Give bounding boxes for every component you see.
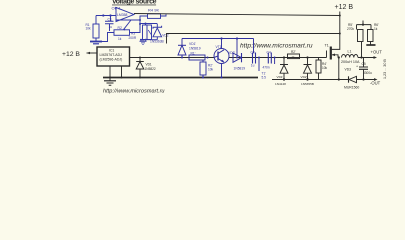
- svg-text:R1': R1': [191, 52, 196, 56]
- svg-text:VD3: VD3: [345, 68, 352, 72]
- capacitor C4: [268, 53, 271, 64]
- svg-text:1,23 ... 30 В: 1,23 ... 30 В: [383, 59, 387, 79]
- resistor R2' series: [288, 54, 300, 59]
- node dot: [109, 14, 111, 16]
- title Voltage source: [112, 0, 157, 6]
- svg-text:1k: 1k: [118, 37, 122, 41]
- node rail junction pin5: [121, 77, 123, 79]
- svg-text:MUR1560: MUR1560: [344, 85, 359, 89]
- node R3 top junction: [139, 23, 141, 25]
- svg-text:L1: L1: [348, 50, 352, 54]
- main wire IC to T1: [130, 57, 327, 59]
- resistor R6': [368, 30, 374, 42]
- svg-text:1k: 1k: [374, 27, 378, 31]
- IC pins down: [110, 66, 122, 78]
- svg-text:200R: 200R: [129, 36, 137, 40]
- svg-text:-OUT: -OUT: [370, 81, 381, 86]
- zener diode VD2 1N5363B: [156, 24, 158, 40]
- svg-text:1N5355B: 1N5355B: [301, 82, 314, 86]
- blue resistor R1': [189, 55, 205, 60]
- svg-text:C1: C1: [108, 18, 112, 22]
- blue resistor R2' 10k vertical: [202, 60, 204, 78]
- wire op-amp -input: [116, 19, 140, 21]
- node rail junction VD2': [306, 78, 308, 80]
- svg-text:+12 В: +12 В: [62, 51, 80, 58]
- svg-text:VD2: VD2: [162, 34, 168, 38]
- svg-text:http://www.microsmart.ru: http://www.microsmart.ru: [240, 43, 313, 50]
- T1 source arrow: [332, 55, 338, 58]
- svg-text:+: +: [356, 65, 358, 69]
- node rail junction pin3: [109, 77, 111, 79]
- resistor R3 trimmer: [140, 24, 157, 40]
- svg-text:1u: 1u: [251, 64, 255, 68]
- svg-text:R2: R2: [118, 26, 122, 30]
- resistor R4': [318, 58, 320, 80]
- svg-text:OP 1: OP 1: [112, 6, 122, 11]
- svg-text:200uH 10A: 200uH 10A: [341, 60, 360, 64]
- svg-text:1u: 1u: [109, 25, 113, 29]
- wire R4 leads: [140, 14, 166, 31]
- ground at zener: [140, 40, 147, 42]
- svg-text:VD2': VD2': [228, 51, 235, 55]
- node wire33 junction: [339, 33, 341, 35]
- node rail junction VD1: [139, 77, 141, 79]
- IC1 LM2576T-ADJ: [97, 47, 130, 66]
- svg-text:R4 9K: R4 9K: [148, 8, 159, 13]
- svg-text:470n: 470n: [263, 65, 270, 69]
- wire +12V down to T1: [331, 12, 340, 50]
- svg-text:10k: 10k: [322, 66, 328, 70]
- node T1': [258, 57, 260, 59]
- svg-text:R2': R2': [291, 50, 296, 54]
- top section: voltage reference (navy): [86, 6, 169, 45]
- diode VD1 1N5822: [139, 58, 141, 78]
- wire main to gate: [326, 51, 328, 58]
- R6 ground: [370, 42, 372, 45]
- svg-text:10k: 10k: [208, 68, 214, 72]
- svg-text:1N5822: 1N5822: [145, 67, 156, 71]
- node +12V corner junction: [339, 15, 341, 17]
- resistor R1: [95, 16, 97, 42]
- blue diode VD1' 1N5819: [181, 39, 183, 58]
- svg-text:C5: C5: [362, 62, 366, 66]
- svg-text:+OUT: +OUT: [371, 50, 383, 55]
- svg-text:5.5: 5.5: [262, 75, 267, 79]
- svg-text:VD2': VD2': [301, 75, 308, 79]
- node blue junction C3 branch: [236, 37, 238, 39]
- svg-text:(LM2596-ADJ): (LM2596-ADJ): [100, 58, 123, 62]
- node R5-output junction: [360, 56, 362, 58]
- node wire bottom: [140, 39, 157, 41]
- node divider junction: [362, 24, 364, 26]
- svg-text:10k: 10k: [86, 27, 92, 31]
- node feedback junction: [139, 19, 141, 21]
- wire +12V rail to op-amp section: [167, 34, 340, 44]
- wire op-amp +input: [96, 15, 116, 17]
- potentiometer R2: [114, 30, 130, 36]
- transistor VT1: [214, 49, 229, 64]
- blue modification sub-circuit: [178, 37, 276, 79]
- svg-text:3300u: 3300u: [363, 71, 372, 75]
- output rail: [272, 79, 376, 81]
- capacitor C5: [363, 58, 365, 80]
- svg-text:270k: 270k: [347, 27, 354, 31]
- svg-text:IC1: IC1: [109, 49, 114, 53]
- node VD1 top junction: [139, 57, 141, 59]
- resistor R4: [148, 14, 161, 19]
- svg-text:LM2576T-ADJ: LM2576T-ADJ: [100, 53, 123, 57]
- op-amp OP1: [116, 8, 134, 22]
- svg-text:VT1: VT1: [216, 45, 222, 49]
- bottom rail: [103, 77, 258, 79]
- svg-text:C4: C4: [267, 51, 271, 55]
- wire R5 bottom lead to output node: [361, 42, 363, 58]
- zener VD1' 1N4148: [283, 58, 285, 80]
- ground symbol on rail: [109, 78, 111, 81]
- svg-text:T1: T1: [325, 43, 329, 47]
- wire drain vertical to rail: [338, 58, 340, 80]
- blue diode VD2' series: [233, 53, 242, 62]
- -OUT arrow: [374, 78, 378, 81]
- svg-text:LM358: LM358: [117, 13, 127, 17]
- svg-text:VD1': VD1': [277, 75, 284, 79]
- +OUT arrow: [374, 56, 378, 59]
- svg-text:C3: C3: [251, 51, 255, 55]
- svg-text:1N5819: 1N5819: [234, 67, 246, 71]
- svg-text:+12 В: +12 В: [335, 4, 354, 11]
- node dot: [102, 14, 104, 16]
- ground under R1: [90, 41, 102, 43]
- wire R5 R6 divider top node: [357, 21, 372, 30]
- resistor R5': [358, 30, 364, 42]
- node rail junction C5: [362, 78, 364, 80]
- node blue junction VT1 top: [220, 37, 222, 39]
- node rail junction T1: [338, 78, 340, 80]
- T1 channel bar: [330, 47, 332, 60]
- wire output: [134, 14, 340, 16]
- node rail junction VD1': [283, 78, 285, 80]
- node T1 source junction: [338, 56, 340, 58]
- capacitor C1: [110, 16, 111, 32]
- diode VD3 MUR1560 (in rail): [348, 76, 350, 82]
- svg-text:http://www.microsmart.ru: http://www.microsmart.ru: [103, 89, 165, 95]
- svg-text:VD1: VD1: [146, 63, 152, 67]
- blue top wire: [182, 39, 254, 58]
- svg-text:1N4148: 1N4148: [275, 82, 286, 86]
- zener VD2' 1N5355B: [307, 58, 309, 80]
- svg-text:1N5819: 1N5819: [189, 46, 201, 50]
- R2 wiper arrow: [124, 20, 132, 30]
- capacitor C3: [253, 53, 256, 64]
